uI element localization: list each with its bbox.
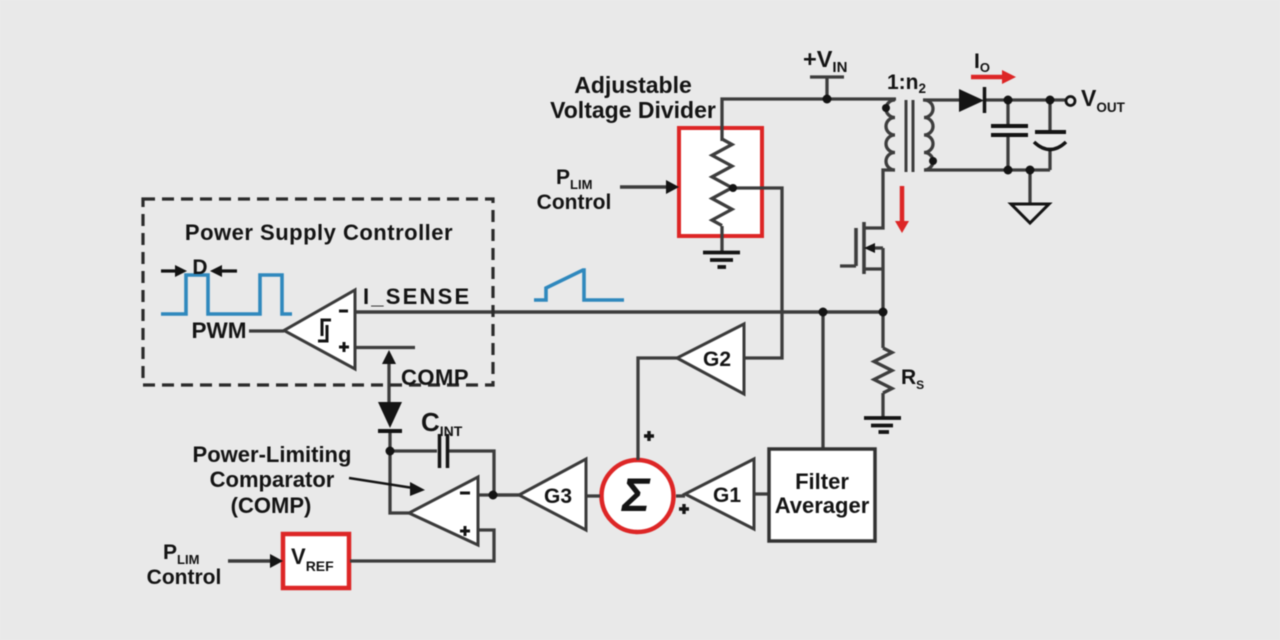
svg-text:G2: G2 [703,348,731,371]
svg-text:PWM: PWM [192,318,247,343]
svg-text:Σ: Σ [620,468,651,521]
svg-text:Voltage Divider: Voltage Divider [550,97,716,123]
svg-text:D: D [192,256,207,279]
svg-text:G3: G3 [544,485,572,508]
svg-text:Comparator: Comparator [210,467,335,492]
svg-text:Averager: Averager [775,493,870,518]
svg-text:I_SENSE: I_SENSE [363,284,471,309]
svg-text:Control: Control [147,566,222,589]
svg-text:Filter: Filter [795,469,849,494]
svg-text:Control: Control [537,191,612,214]
svg-text:COMP: COMP [401,365,469,390]
svg-text:G1: G1 [713,484,741,507]
svg-text:Power Supply Controller: Power Supply Controller [185,220,453,245]
svg-text:(COMP): (COMP) [231,493,312,518]
svg-text:Adjustable: Adjustable [574,72,692,98]
svg-text:Power-Limiting: Power-Limiting [193,442,352,467]
